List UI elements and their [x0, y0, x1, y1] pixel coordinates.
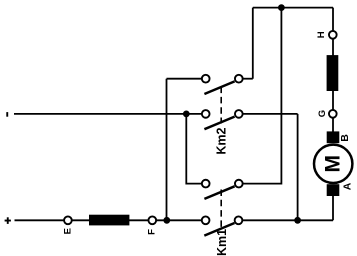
svg-text:G: G	[317, 110, 328, 117]
svg-text:H: H	[316, 31, 327, 38]
resistor R-armature (bottom rail)	[89, 215, 129, 226]
wire: Km2 middle contact right lead	[239, 113, 298, 115]
svg-text:M: M	[322, 155, 345, 173]
terminal H	[329, 31, 337, 39]
wire: left drop from top rail to Km2 upper contact	[252, 8, 254, 79]
svg-text:E: E	[63, 228, 74, 234]
junction dot on top rail	[278, 4, 285, 11]
wire: plus rail right section	[239, 219, 334, 221]
motor M circle	[314, 145, 352, 183]
wire: riser from plus rail to motor brush A	[332, 195, 334, 220]
terminal E	[64, 216, 72, 224]
junction dot on plus rail at motor branch	[294, 217, 301, 224]
contact Km1-a right circle	[235, 180, 243, 188]
label minus terminal	[6, 112, 8, 117]
svg-text:A: A	[342, 182, 354, 190]
contact Km2-b blade	[204, 117, 234, 130]
wire: vertical from Km2 upper contact down to plus rail	[166, 79, 168, 221]
contact Km2-b left circle	[202, 110, 210, 118]
dashed link Km2	[220, 87, 222, 124]
wire: vertical from top-rail junction down to Km1 upper contact right lead	[239, 8, 282, 184]
motor brush A	[327, 184, 340, 196]
wire: right rail from top corner down through H, R2, G to brush B	[332, 8, 334, 132]
wire: from minus-rail junction down to Km1 upper contact	[186, 114, 205, 184]
contact Km1-b right circle	[235, 216, 243, 224]
contact Km2-b right circle	[235, 110, 243, 118]
motor brush B	[327, 131, 340, 143]
wire: vertical from Km2 middle contact down to plus rail	[297, 114, 299, 220]
wire: Km2 upper contact left lead	[167, 78, 206, 80]
contact Km2-a left circle	[202, 75, 210, 83]
wire: Km2 upper contact right lead	[239, 78, 253, 80]
svg-text:B: B	[339, 134, 351, 142]
contact Km1-b blade	[204, 223, 234, 236]
svg-text:Km1: Km1	[215, 229, 229, 256]
junction dot on minus rail	[183, 111, 190, 118]
contact Km1-a left circle	[202, 180, 210, 188]
contact Km1-a blade	[204, 186, 234, 199]
contact Km1-b left circle	[202, 216, 210, 224]
wire: minus rail	[14, 113, 206, 115]
terminal F	[148, 216, 156, 224]
contact Km2-a right circle	[235, 75, 243, 83]
resistor R-field (right rail)	[327, 55, 339, 91]
wire: plus rail left section	[15, 219, 206, 221]
svg-text:F: F	[147, 229, 158, 235]
wire: top rail	[253, 7, 333, 9]
dashed link Km1	[220, 190, 222, 231]
terminal G	[329, 110, 337, 118]
label plus terminal	[5, 217, 11, 224]
junction dot on plus rail at F	[163, 217, 170, 224]
svg-text:Km2: Km2	[215, 128, 229, 155]
contact Km2-a blade	[204, 81, 234, 94]
